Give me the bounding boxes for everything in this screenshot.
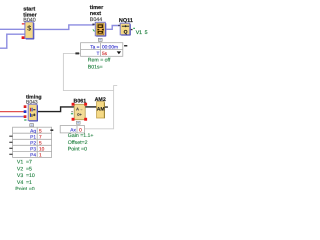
svg-text:=5: =5 (26, 166, 32, 172)
svg-text:next: next (90, 11, 101, 17)
svg-text:0+: 0+ (77, 112, 82, 117)
svg-text:5: 5 (39, 140, 42, 146)
svg-text:P1: P1 (30, 134, 36, 140)
svg-text:AM: AM (97, 106, 105, 112)
svg-text:=10: =10 (26, 173, 35, 179)
svg-text:=1: =1 (26, 180, 32, 186)
svg-text:1: 1 (39, 153, 42, 159)
svg-text:V1: V1 (136, 30, 142, 36)
svg-text:T: T (96, 51, 99, 57)
svg-text:Gain =1.1+: Gain =1.1+ (68, 133, 94, 139)
svg-text:Aq: Aq (30, 128, 36, 134)
svg-text:=0: =0 (29, 186, 35, 190)
svg-text:7: 7 (39, 134, 42, 140)
svg-text:10: 10 (39, 147, 45, 153)
svg-text:P2: P2 (30, 140, 36, 146)
svg-text:$: $ (27, 24, 31, 32)
svg-text:Ta =: Ta = (90, 44, 99, 50)
svg-text:P3: P3 (30, 147, 36, 153)
svg-text:5s: 5s (102, 51, 108, 57)
svg-text:00:00m: 00:00m (102, 44, 118, 50)
svg-text:V1: V1 (17, 160, 23, 166)
svg-text:V4: V4 (17, 180, 23, 186)
svg-text:Rem = off: Rem = off (88, 58, 111, 64)
svg-text:Point =0: Point =0 (68, 147, 87, 153)
svg-text:V2: V2 (17, 166, 23, 172)
svg-text:=7: =7 (26, 160, 32, 166)
svg-text:Q: Q (124, 29, 128, 35)
svg-text:Point: Point (15, 186, 27, 190)
svg-text:P4: P4 (30, 153, 36, 159)
svg-text:Offset=2: Offset=2 (68, 140, 88, 146)
svg-text:V3: V3 (17, 173, 23, 179)
svg-text:5: 5 (39, 128, 42, 134)
svg-text:B01s=: B01s= (88, 64, 103, 70)
svg-text:5: 5 (145, 30, 148, 36)
